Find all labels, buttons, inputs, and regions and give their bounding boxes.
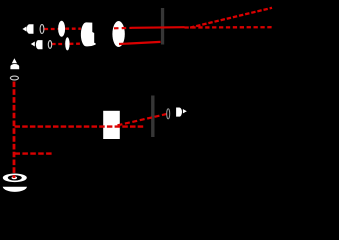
wire beam upper solid to iris I1 (132, 26, 185, 29)
beamsplitter BS1 (103, 111, 120, 139)
lens L1 edge-on (40, 25, 44, 34)
wire beam LD2 to L2 (52, 43, 65, 45)
wire beam horizontal to BS1 (15, 125, 144, 127)
wire beam lower solid through L3 to iris I1 (119, 42, 161, 44)
wire beam diverging upward after iris I1 (190, 8, 272, 28)
wire beam vertical from LD3 (13, 82, 16, 179)
wire beam diagonal BS1 to photodiode (118, 114, 168, 125)
lens L1b (58, 21, 65, 37)
wire beam upper through L3 dashed (114, 27, 132, 30)
mirror disc M1 bulls-eye (3, 174, 27, 192)
photodiode PD1 (176, 108, 187, 117)
wire beam L2 to aspheric lens (70, 43, 81, 45)
wire beam L1 to aspheric lens (65, 28, 81, 30)
wire beam LD1 to L1 (44, 28, 58, 30)
aspheric lens AL1 (81, 22, 96, 46)
iris I2 (151, 96, 154, 138)
lens L5 edge-on (167, 109, 170, 119)
laser diode LD3 vertical (10, 58, 19, 69)
lens L2b (65, 37, 69, 50)
lens L4 edge-on horizontal (10, 76, 18, 80)
laser diode LD2 (31, 40, 43, 49)
mirror disc M1 bottom rim (3, 187, 27, 192)
wire beam horizontal after iris I1 (185, 26, 273, 29)
iris I1 (161, 8, 164, 45)
wire beam short branch (15, 152, 53, 154)
collimating lens L3 (112, 21, 124, 47)
lens L2 edge-on (48, 41, 51, 49)
laser diode LD1 (22, 24, 33, 34)
